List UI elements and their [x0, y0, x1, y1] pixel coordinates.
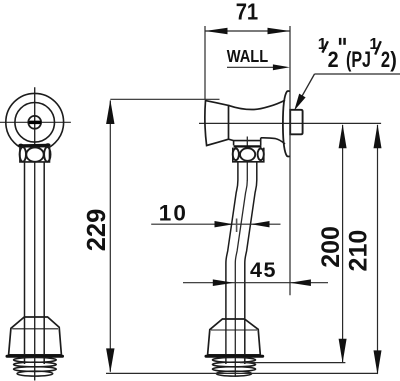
- body cone top profile: [229, 100, 286, 109]
- pipe center with bend: [235, 180, 247, 377]
- dim 10 extension tick: [236, 219, 238, 233]
- svg-text:2: 2: [328, 47, 339, 72]
- nut left ellipse (side): [233, 149, 239, 161]
- dim 10 arrow left-pointing: [251, 221, 270, 227]
- screw slot: [30, 121, 39, 125]
- bottom fitting: [9, 317, 62, 355]
- thread ridge 3 (side): [212, 367, 255, 372]
- horizontal centerline: [199, 122, 381, 124]
- bottom fitting (side): [208, 319, 261, 355]
- fitting flange bar: [7, 355, 63, 358]
- dim 45 line: [183, 282, 328, 284]
- top extension line (valve top): [110, 98, 219, 100]
- dim 229 arrow up: [106, 100, 114, 124]
- nipple (threaded outlet): [290, 110, 302, 135]
- dim 45 arrow left-pointing: [290, 279, 311, 286]
- fraction slash 2: [375, 41, 381, 54]
- dim 200 arrow down: [339, 339, 347, 363]
- pipe left edge: [24, 162, 26, 364]
- nut top bar: [21, 144, 49, 148]
- WALL arrow: [227, 66, 284, 68]
- dim 10 arrow right-pointing: [215, 221, 234, 227]
- leader line diagonal: [299, 74, 315, 102]
- body underside left step: [229, 139, 261, 145]
- dim 71 arrow left: [205, 28, 228, 34]
- outlet centerline: [246, 137, 248, 181]
- fitting inner line: [12, 328, 58, 330]
- svg-text:210: 210: [344, 230, 372, 272]
- svg-text:200: 200: [317, 226, 345, 268]
- nut right ellipse (side): [258, 149, 264, 161]
- body underside right step and curve to flange: [261, 138, 285, 146]
- dim 71 extension left: [204, 26, 206, 100]
- dim 229 arrow down: [106, 348, 114, 372]
- leader arrowhead: [294, 94, 305, 111]
- dim 71 line: [205, 30, 290, 32]
- nut middle ellipse (side): [240, 148, 255, 161]
- horizontal centerline: [0, 121, 71, 123]
- dim 10 line: [151, 223, 280, 225]
- svg-text:71: 71: [236, 0, 259, 25]
- nut body: [20, 147, 50, 162]
- thread ridge 2: [14, 362, 57, 367]
- push button: [205, 101, 229, 146]
- dim 200 line: [342, 125, 344, 362]
- dim 45 arrow right-pointing: [213, 279, 234, 286]
- svg-text:229: 229: [83, 209, 111, 252]
- inch quote marks: [339, 38, 342, 45]
- thread ridge 2 (side): [212, 362, 255, 367]
- dim 200 arrow up: [339, 124, 347, 148]
- thread bottom cap (side): [216, 371, 251, 376]
- thread ridge 1: [14, 358, 57, 363]
- bottom baseline: [106, 372, 378, 374]
- pipe right edge: [43, 162, 45, 364]
- pipe edges inside fitting: [225, 319, 227, 364]
- nut body (side): [233, 148, 264, 162]
- dim 210 arrow up: [374, 124, 382, 148]
- vertical centerline: [34, 87, 36, 380]
- dim 229 line: [109, 101, 111, 372]
- svg-text:(PJ: (PJ: [346, 47, 371, 72]
- dim 200 extension line: [240, 362, 345, 364]
- svg-text:45: 45: [250, 258, 277, 282]
- fraction slash 1: [322, 41, 328, 52]
- inner circle: [15, 103, 55, 143]
- pipe right edge with bend: [245, 162, 257, 364]
- thread ridge 1 (side): [212, 358, 255, 363]
- fitting flange bar (side): [206, 355, 263, 358]
- flange: [283, 91, 290, 157]
- wall line: [289, 26, 291, 295]
- thread bottom cap: [17, 371, 53, 376]
- outer circle: [6, 93, 64, 151]
- thread ridge 3: [14, 367, 57, 372]
- nut right ellipse: [44, 147, 50, 162]
- nut left ellipse: [20, 147, 26, 162]
- button circle: [28, 116, 41, 129]
- dim 71 arrow right: [268, 28, 291, 34]
- svg-text:2: 2: [381, 47, 390, 72]
- fitting inner line (side): [211, 329, 257, 331]
- svg-text:): ): [390, 47, 397, 72]
- svg-text:WALL: WALL: [227, 46, 269, 66]
- pipe left edge with bend: [226, 162, 238, 319]
- dim 210 arrow down: [374, 350, 382, 374]
- nut top bar (side): [234, 145, 262, 148]
- nut middle ellipse: [26, 147, 43, 161]
- leader line horizontal: [315, 73, 400, 75]
- dim 210 line: [377, 125, 379, 374]
